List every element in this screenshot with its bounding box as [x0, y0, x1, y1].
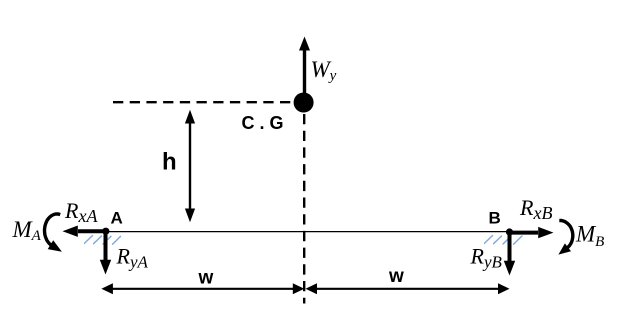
svg-text:MB: MB	[575, 222, 604, 251]
svg-text:A: A	[111, 209, 123, 228]
svg-text:w: w	[198, 268, 214, 289]
svg-text:RyB: RyB	[470, 244, 503, 272]
svg-text:MA: MA	[12, 217, 42, 244]
svg-text:RxA: RxA	[64, 198, 98, 226]
svg-text:Wy: Wy	[311, 57, 337, 84]
svg-text:C . G: C . G	[242, 113, 284, 133]
svg-text:RxB: RxB	[519, 195, 552, 223]
svg-text:w: w	[388, 266, 404, 287]
svg-text:RyA: RyA	[116, 244, 149, 272]
svg-text:B: B	[489, 209, 501, 228]
svg-text:h: h	[162, 149, 177, 176]
